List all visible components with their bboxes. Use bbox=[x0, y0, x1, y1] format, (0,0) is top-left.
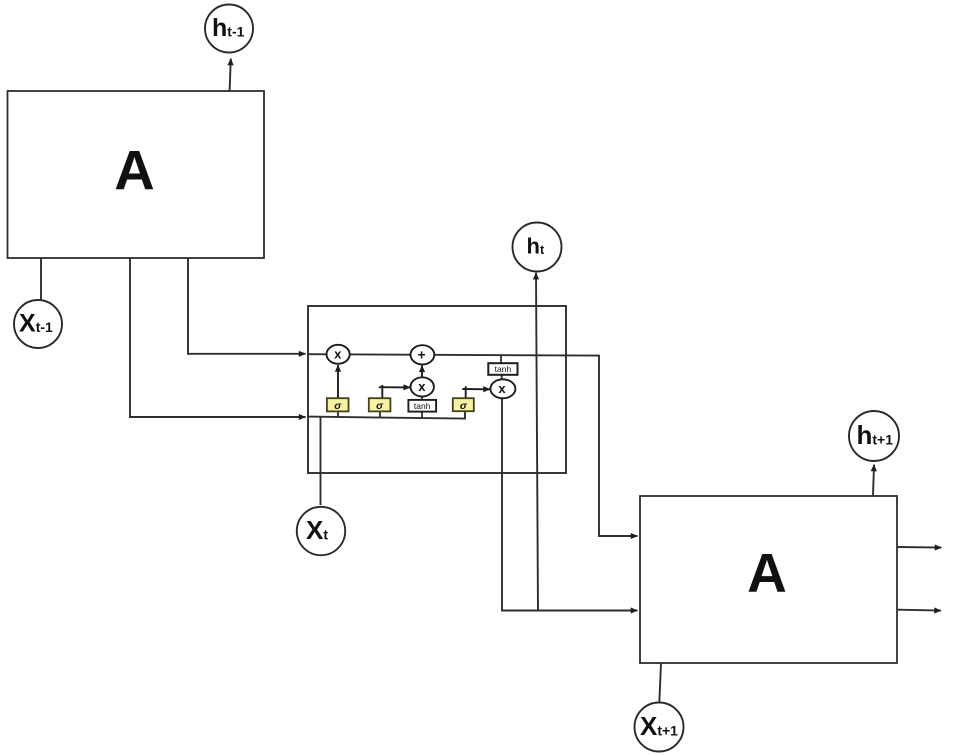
svg-text:x: x bbox=[418, 379, 426, 394]
svg-text:A: A bbox=[747, 542, 787, 604]
svg-text:tanh: tanh bbox=[495, 364, 512, 374]
svg-text:σ: σ bbox=[376, 400, 384, 412]
wire: stub tanh (right) bottom to multiply x3 top bbox=[501, 375, 503, 380]
multiply node x3 bbox=[490, 379, 515, 398]
sigma gate 2 bbox=[369, 398, 391, 412]
node h_t bbox=[513, 223, 562, 272]
wire: h_t branch rising from output bus up to node h_t bbox=[536, 273, 538, 611]
svg-text:tanh: tanh bbox=[414, 401, 431, 411]
svg-text:σ: σ bbox=[460, 400, 468, 412]
wire: stub from bus up to sigma 1 bbox=[337, 411, 339, 417]
wire: X_t-1 input to block A(t-1) bottom bbox=[40, 258, 42, 301]
wire: elbow arrow sigma 2 to multiply x2 bbox=[381, 385, 383, 398]
wire: stub tanh (mid) top to multiply x2 bottom bbox=[421, 396, 423, 400]
tanh box (right) bbox=[488, 363, 517, 375]
wire: upper recurrent line from block A(t-1) into cell (cell state input) bbox=[188, 257, 306, 354]
block A (t-1) bbox=[8, 91, 265, 258]
wire: arrow multiply x2 up to add node bbox=[421, 365, 423, 377]
wire: stub from bus up to tanh (mid) bbox=[421, 412, 423, 418]
wire: cell state line through cell, out right side, down into block A(t+1) upper input bbox=[308, 354, 638, 536]
wire: h_t-1 output arrow from block A(t-1) top bbox=[230, 59, 231, 92]
node X_t+1 bbox=[635, 703, 684, 752]
wire: bottom input bus inside cell bbox=[308, 411, 465, 418]
wire: arrow sigma 1 up to multiply x1 bbox=[337, 365, 339, 398]
wire: X_t+1 input to block A(t+1) bottom bbox=[659, 664, 661, 704]
svg-text:x: x bbox=[498, 381, 506, 396]
wire: X_t riser from bottom bus down to X_t node bbox=[320, 417, 322, 505]
wire: block A(t+1) right output arrow lower bbox=[898, 609, 941, 612]
node X_t-1 bbox=[14, 300, 62, 348]
wire: stub from bus up to sigma 2 bbox=[379, 411, 381, 417]
svg-text:+: + bbox=[418, 347, 426, 362]
svg-text:σ: σ bbox=[334, 400, 342, 412]
node h_t+1 bbox=[849, 411, 899, 461]
multiply node x1 bbox=[327, 345, 350, 364]
LSTM cell box bbox=[308, 306, 566, 473]
multiply node x2 bbox=[411, 377, 434, 396]
svg-text:x: x bbox=[334, 346, 342, 361]
node X_t bbox=[297, 507, 345, 555]
svg-text:A: A bbox=[114, 138, 154, 201]
wire: stub from cell state line down to tanh (right) bbox=[500, 355, 502, 364]
node h_t-1 bbox=[205, 5, 253, 53]
wire: multiply x3 output down and right into block A(t+1) lower input bbox=[502, 398, 638, 610]
wire: h_t+1 output arrow from block A(t+1) top bbox=[873, 465, 874, 496]
wire: elbow arrow sigma 3 to multiply x3 bbox=[465, 386, 467, 398]
block A (t+1) bbox=[640, 496, 897, 663]
add node + bbox=[411, 345, 435, 364]
wire: lower recurrent line from block A(t-1) into cell (h input) bbox=[130, 257, 306, 417]
tanh box (mid) bbox=[408, 400, 436, 412]
sigma gate 1 bbox=[327, 398, 349, 412]
sigma gate 3 bbox=[453, 398, 474, 412]
wire: block A(t+1) right output arrow upper bbox=[898, 546, 942, 549]
